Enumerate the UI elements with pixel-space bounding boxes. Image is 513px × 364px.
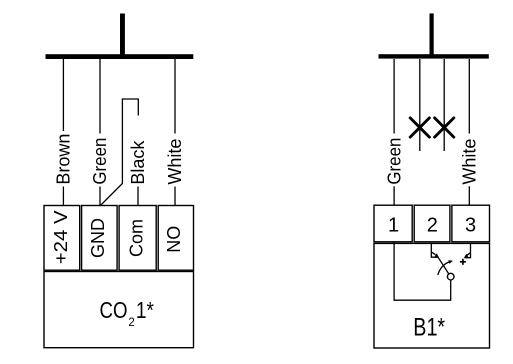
svg-text:Black: Black <box>128 140 148 185</box>
svg-text:Brown: Brown <box>54 134 74 185</box>
svg-text:White: White <box>460 139 480 185</box>
svg-text:CO: CO <box>100 297 128 323</box>
svg-text:2: 2 <box>427 215 438 237</box>
svg-text:GND: GND <box>88 218 108 258</box>
svg-text:White: White <box>165 139 185 185</box>
svg-text:Com: Com <box>127 219 147 257</box>
svg-text:NO: NO <box>164 226 184 253</box>
svg-text:3: 3 <box>465 215 476 237</box>
svg-text:2: 2 <box>128 317 134 329</box>
svg-text:Green: Green <box>384 138 404 185</box>
svg-text:1: 1 <box>388 215 399 237</box>
svg-text:+24 V: +24 V <box>51 210 71 264</box>
svg-text:1*: 1* <box>136 297 154 323</box>
svg-text:Green: Green <box>90 138 110 185</box>
svg-text:B1*: B1* <box>413 313 445 341</box>
